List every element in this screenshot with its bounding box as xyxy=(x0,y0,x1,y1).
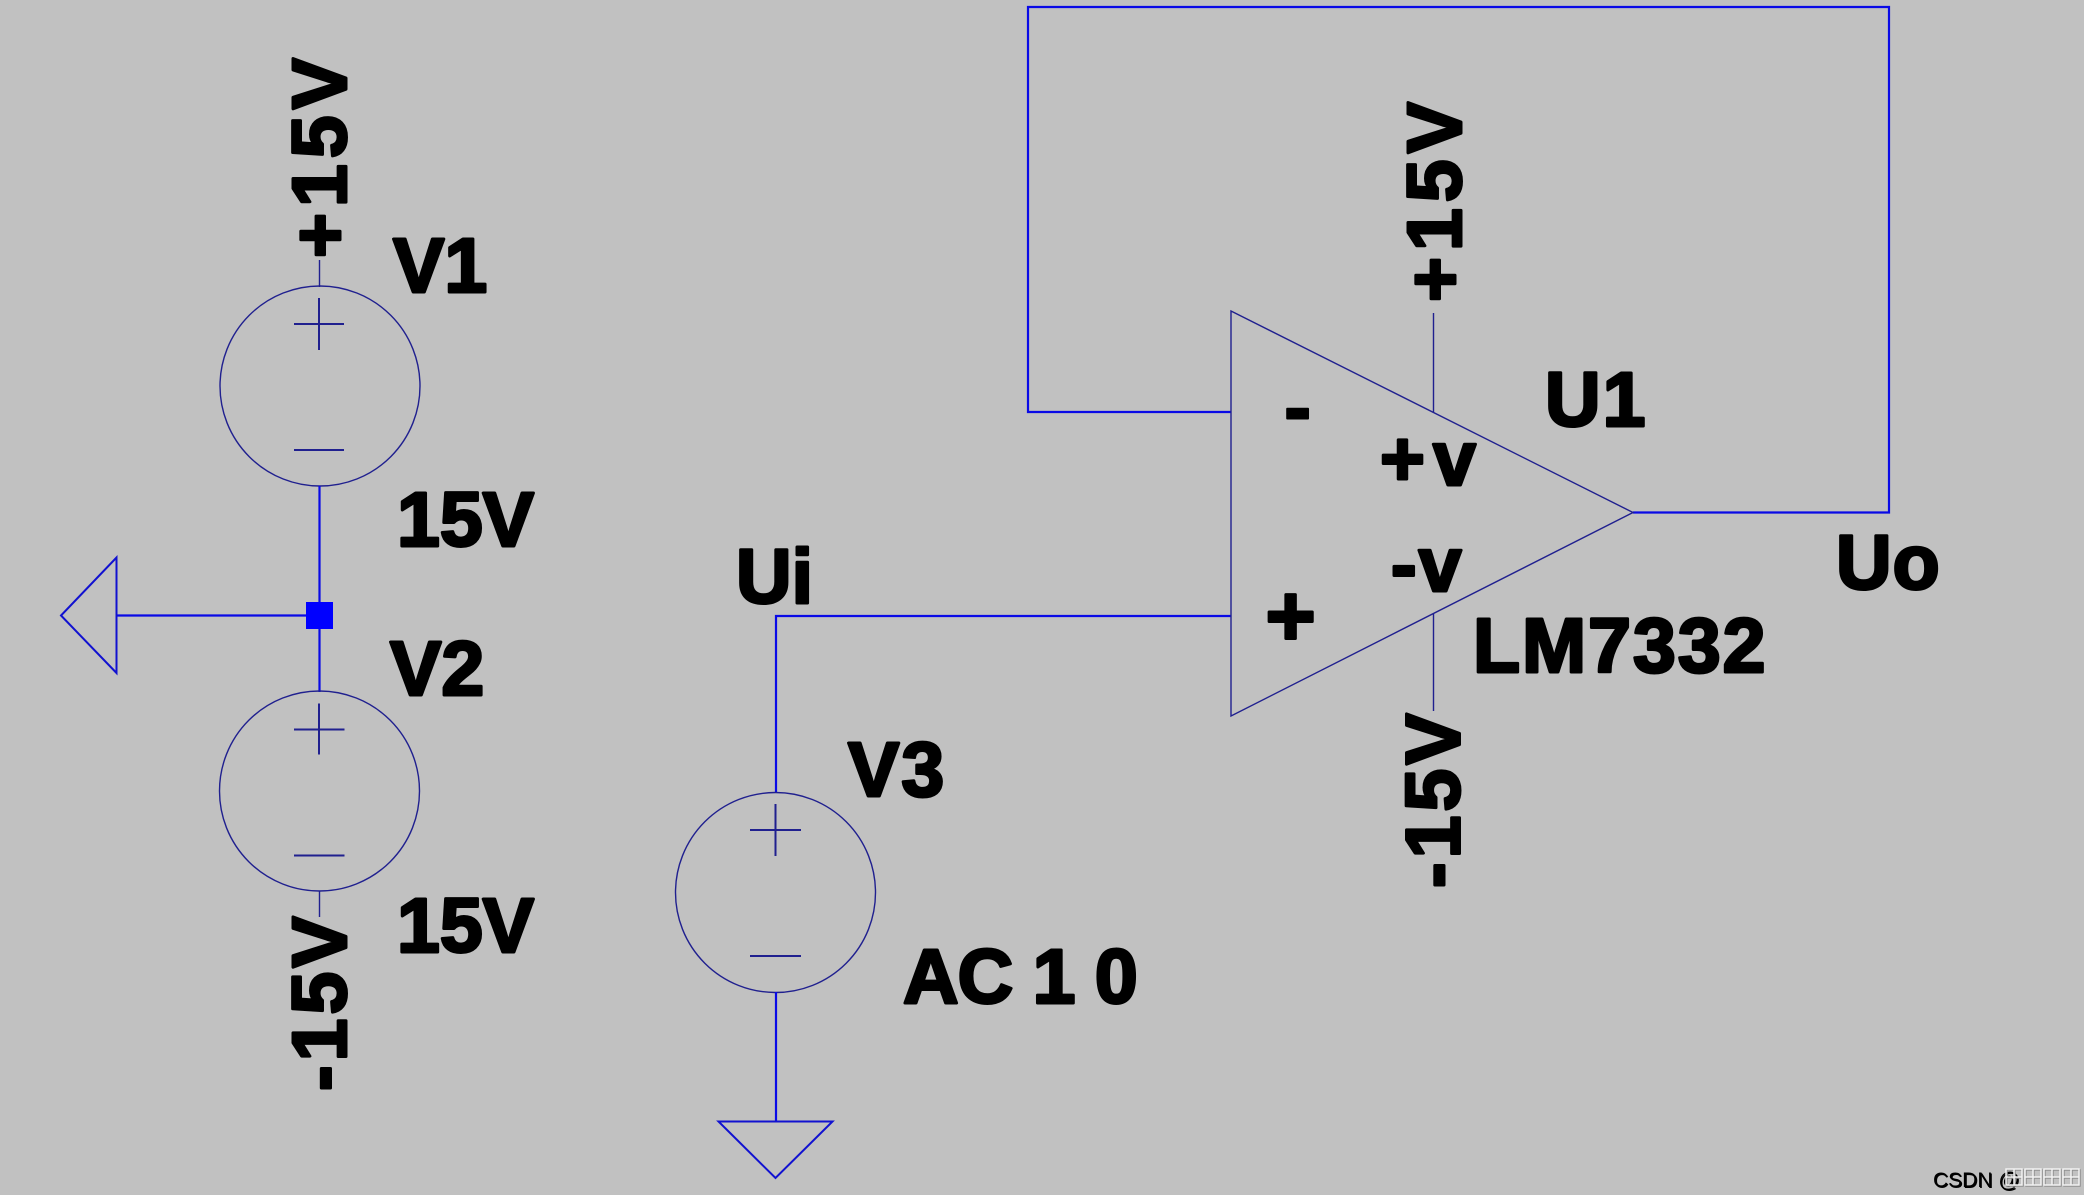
svg-text:AC 1 0: AC 1 0 xyxy=(903,934,1137,1020)
svg-text:V3: V3 xyxy=(848,727,946,813)
wire V3 minus to ground xyxy=(775,992,777,1122)
watermark CJK characters xyxy=(2006,1169,2080,1186)
svg-text:Ui: Ui xyxy=(736,534,813,620)
svg-text:+15V: +15V xyxy=(277,52,363,258)
voltage source V2 (circle body) xyxy=(220,691,420,917)
svg-text:V2: V2 xyxy=(390,626,484,712)
svg-text:LM7332: LM7332 xyxy=(1473,603,1767,689)
svg-text:+v: +v xyxy=(1380,416,1484,502)
ground symbol (left pointing) xyxy=(61,558,117,674)
svg-text:V1: V1 xyxy=(393,223,487,309)
watermark CSDN xyxy=(1933,1169,2021,1193)
voltage source V1 (circle body) xyxy=(220,260,420,486)
svg-text:-15V: -15V xyxy=(1391,709,1477,888)
voltage source V3 (circle body) xyxy=(676,793,876,993)
svg-text:U1: U1 xyxy=(1545,357,1647,443)
svg-text:Uo: Uo xyxy=(1836,520,1941,606)
svg-text:15V: 15V xyxy=(397,883,534,969)
wire Ui node to op-amp non-inverting input xyxy=(776,616,1231,793)
ground symbol (down pointing, V3) xyxy=(719,1122,833,1179)
svg-text:-: - xyxy=(1284,362,1311,453)
svg-text:-15V: -15V xyxy=(277,912,363,1091)
junction node (blue square) xyxy=(306,602,333,629)
svg-text:+: + xyxy=(1266,569,1316,665)
svg-text:15V: 15V xyxy=(397,477,534,563)
wire feedback loop (output to inverting input) xyxy=(1028,7,1889,513)
svg-text:+15V: +15V xyxy=(1392,96,1478,302)
wire V1 minus to junction to V2 plus xyxy=(318,486,320,692)
svg-text:-v: -v xyxy=(1391,522,1463,608)
wire junction to ground xyxy=(116,614,307,616)
op-amp U1 (triangle body) xyxy=(1231,311,1633,716)
